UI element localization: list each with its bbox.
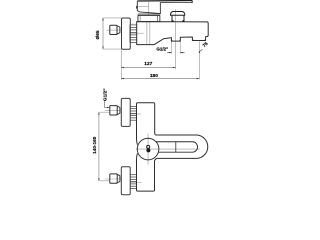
dimension Ø65 (vertical, side view) [102,18,104,49]
bottom thread rungs (front view) [130,175,136,189]
centerline valve vertical (front view) [147,134,149,165]
body and spout outline (side view) [137,22,209,45]
valve circle (front view) [137,138,159,160]
nut chamfer cone (side view) [117,26,120,35]
extension line outlet center [198,41,200,79]
extension line wall plane [120,50,122,80]
centerline bottom inlet axis (front view) [105,178,121,180]
centerline inlet axis (side view) [131,32,144,34]
diverter knob cylinder [172,15,184,21]
body upper slab (front view) [137,103,156,145]
svg-text:180: 180 [150,73,158,79]
aerator corner dots [171,39,172,42]
svg-text:140-160: 140-160 [92,136,97,154]
extension line flange top [103,17,122,19]
extension line flange bottom [103,48,122,50]
body lower slab (front view) [137,154,157,192]
svg-text:G1/2": G1/2" [102,88,108,101]
handle neck (side view) [137,1,160,13]
bottom nut chamfer [117,174,120,183]
centerline valve axis (vertical, side view) [148,2,150,15]
handle interior line [138,6,148,8]
body cartridge bore lines (side view) [146,22,148,45]
collar facet lines [157,16,159,22]
dimension 180 (horizontal) [121,78,199,80]
top nut chamfer [117,106,120,115]
wall flange (side view) [122,18,131,49]
dimension 140-160 (vertical, front view) [98,112,100,181]
svg-text:G1/2": G1/2" [156,47,168,52]
extension line aerator right [179,41,181,54]
svg-text:Ø65: Ø65 [95,30,100,39]
bottom hex nut (front view) [110,174,117,183]
hex nut (side view) [110,25,117,34]
top thread rungs (front view) [130,106,136,120]
thread rungs (side view) [130,25,137,43]
outlet corner dots [192,39,193,42]
handle screw (front view) [147,145,150,148]
extension line aerator left [171,41,173,54]
lever end cap [191,0,193,3]
cartridge collar (side view) [138,13,161,15]
centerline top inlet axis (front view) [105,109,121,111]
knob feet [172,20,174,21]
svg-text:75: 75 [202,41,209,48]
centerline nut axis (side view) [106,29,120,31]
spout seam line [175,142,177,152]
dimension G1/2" aerator (side view) [167,52,171,54]
top wall flange (front view) [121,98,130,126]
spout outer stadium (front view) [156,135,208,158]
centerline aerator axis (side view) [175,9,177,69]
diverter knob dome (side view) [170,11,184,15]
annotation 75 at spout outlet [199,51,200,53]
lever handle bar (side view) [137,0,192,2]
bottom wall flange (front view) [121,167,130,195]
centerline valve horizontal (front view) [136,148,200,150]
svg-text:127: 127 [144,61,152,67]
dimension 127 (horizontal) [121,66,175,68]
spout inner capsule (front view) [156,142,197,152]
handle nose detail [136,6,138,9]
top hex nut (front view) [110,106,117,115]
lever underside line [160,2,192,4]
